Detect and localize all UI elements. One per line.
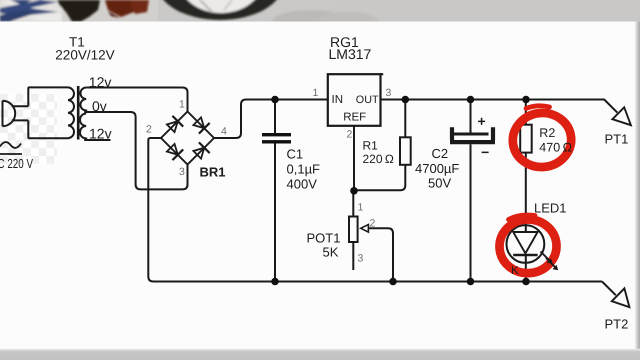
svg-text:4700µF: 4700µF [415, 161, 459, 176]
svg-text:2: 2 [347, 129, 353, 141]
svg-text:3: 3 [179, 166, 185, 178]
svg-text:220V/12V: 220V/12V [55, 48, 114, 63]
svg-text:2: 2 [146, 124, 152, 136]
svg-text:1: 1 [179, 99, 185, 111]
svg-text:3: 3 [386, 87, 392, 99]
svg-text:C2: C2 [432, 146, 449, 161]
svg-text:4: 4 [221, 126, 227, 138]
svg-text:POT1: POT1 [307, 231, 341, 246]
svg-text:5K: 5K [323, 245, 339, 260]
svg-text:R1: R1 [363, 139, 379, 153]
svg-text:400V: 400V [287, 177, 318, 192]
svg-text:LM317: LM317 [329, 46, 372, 62]
svg-text:REF: REF [343, 112, 366, 124]
svg-text:0,1µF: 0,1µF [287, 162, 321, 177]
svg-text:LED1: LED1 [534, 201, 567, 216]
svg-text:PT1: PT1 [605, 132, 629, 147]
svg-text:12v: 12v [89, 126, 112, 142]
svg-text:1: 1 [313, 87, 319, 99]
svg-text:+: + [478, 113, 486, 129]
svg-text:−: − [481, 144, 489, 160]
svg-text:IN: IN [332, 94, 344, 106]
svg-text:C1: C1 [287, 147, 304, 162]
svg-text:PT2: PT2 [605, 317, 629, 332]
svg-text:R2: R2 [539, 126, 555, 140]
svg-text:220 Ω: 220 Ω [363, 152, 394, 166]
svg-text:BR1: BR1 [200, 165, 226, 180]
svg-text:K: K [511, 265, 519, 277]
svg-text:OUT: OUT [356, 94, 379, 106]
svg-text:0v: 0v [92, 98, 107, 114]
svg-text:3: 3 [358, 253, 364, 265]
svg-text:12v: 12v [89, 74, 112, 90]
svg-text:2: 2 [370, 218, 376, 230]
svg-text:470 Ω: 470 Ω [539, 140, 572, 154]
svg-text:50V: 50V [428, 176, 451, 191]
svg-text:1: 1 [358, 202, 364, 214]
svg-text:AC 220 V: AC 220 V [0, 156, 33, 171]
